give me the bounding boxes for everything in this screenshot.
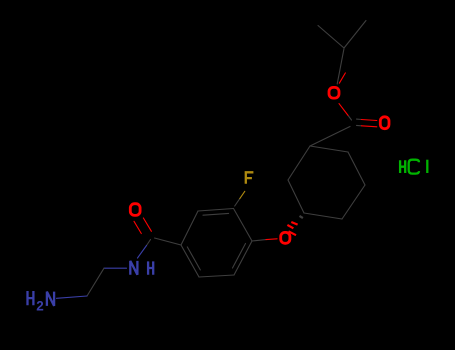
isopropyl CH-CH3 bond right: [344, 21, 366, 49]
bond N1-CH2a: [104, 267, 127, 269]
bond CH2b-N2: [57, 296, 88, 298]
benzene bond C7-C8: [234, 209, 253, 242]
benzene bond C11-C12: [199, 275, 234, 277]
svg-text:2: 2: [36, 298, 44, 313]
atom O1 ester oxygen: [329, 87, 339, 98]
ester C=O double bond to O2: [357, 118, 362, 120]
bond benzene C7 to O3: [252, 240, 266, 241]
isopropyl CH-CH3 bond left: [318, 26, 344, 49]
bond O1 to isopropyl CH: [337, 49, 344, 85]
atom N2 amine label H2N: [28, 291, 34, 305]
benzene bond C10-C11 double: [181, 245, 199, 277]
stereo hashed-wedge bond C5 to O3: [300, 216, 303, 218]
cyclohexane bond C3-C4: [342, 185, 365, 219]
atom O3 aryl ether oxygen: [281, 232, 290, 243]
atom F fluorine: [246, 172, 254, 184]
HCl hydrochloride label: [400, 160, 405, 173]
bond amide C to benzene C10: [155, 238, 182, 245]
bond C1 to ester carbonyl C: [310, 127, 350, 147]
cyclohexane bond C1-C2: [310, 146, 348, 152]
amide C=O double bond: [134, 221, 141, 233]
benzene bond C9-C10: [181, 211, 198, 245]
atom N1 amide nitrogen label NH: [130, 261, 137, 275]
bond ester O1 to carbonyl C: [339, 104, 349, 116]
atom O4 amide oxygen: [130, 204, 140, 216]
bond benzene C8 to F: [235, 199, 240, 206]
cyclohexane bond C4-C5: [304, 213, 342, 219]
benzene bond C12-C7 double: [234, 241, 252, 275]
atom O2 carbonyl oxygen: [380, 117, 389, 129]
benzene bond C8-C9 double: [198, 209, 234, 212]
bond CH2a-CH2b: [87, 268, 104, 296]
cyclohexane bond C6-C1: [288, 146, 310, 180]
cyclohexane bond C5-C6: [288, 180, 304, 213]
bond amide C to N1: [147, 240, 151, 246]
cyclohexane bond C2-C3: [348, 152, 365, 185]
